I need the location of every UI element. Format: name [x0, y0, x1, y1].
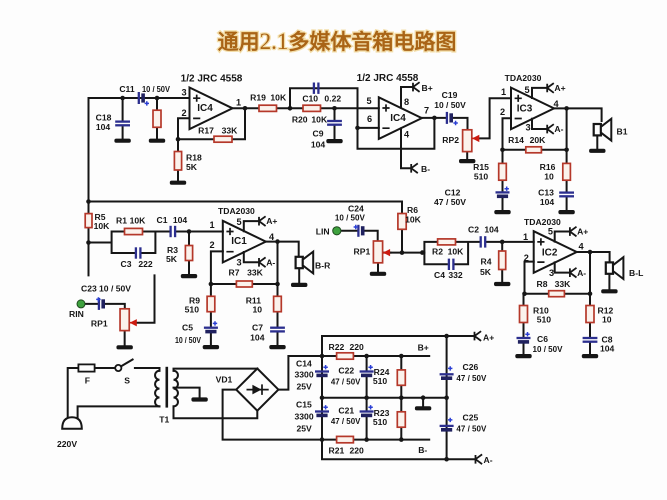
- svg-text:IC4: IC4: [390, 113, 406, 124]
- svg-text:C18: C18: [96, 113, 112, 123]
- svg-text:10 / 50V: 10 / 50V: [533, 344, 563, 354]
- svg-text:C14: C14: [296, 358, 312, 368]
- svg-text:LIN: LIN: [316, 226, 330, 236]
- svg-text:A-: A-: [484, 455, 493, 465]
- svg-text:25V: 25V: [297, 424, 313, 434]
- svg-text:C9: C9: [313, 129, 324, 139]
- svg-text:S: S: [124, 375, 130, 385]
- svg-text:104: 104: [600, 344, 615, 354]
- svg-text:222: 222: [138, 259, 153, 269]
- svg-text:R6: R6: [407, 205, 418, 215]
- svg-text:1/2 JRC 4558: 1/2 JRC 4558: [181, 74, 243, 85]
- svg-text:C5: C5: [182, 323, 193, 333]
- svg-text:B-L: B-L: [629, 268, 643, 278]
- svg-text:5K: 5K: [480, 267, 492, 277]
- svg-text:C4: C4: [434, 270, 445, 280]
- svg-text:R22: R22: [329, 342, 345, 352]
- svg-text:104: 104: [173, 215, 188, 225]
- svg-text:10K: 10K: [270, 92, 287, 102]
- svg-text:B-R: B-R: [315, 260, 331, 270]
- svg-text:2: 2: [524, 253, 529, 263]
- svg-text:C2: C2: [468, 224, 479, 234]
- svg-text:47 / 50V: 47 / 50V: [331, 376, 361, 386]
- svg-text:IC4: IC4: [197, 103, 213, 114]
- svg-text:2: 2: [500, 107, 505, 117]
- svg-text:25V: 25V: [297, 381, 313, 391]
- svg-text:1: 1: [209, 220, 214, 230]
- svg-text:F: F: [85, 376, 90, 386]
- svg-text:C23: C23: [81, 283, 97, 293]
- svg-text:C6: C6: [537, 334, 548, 344]
- svg-text:RIN: RIN: [69, 309, 84, 319]
- svg-text:C19: C19: [442, 90, 458, 100]
- svg-text:104: 104: [250, 333, 265, 343]
- svg-text:3: 3: [525, 123, 530, 133]
- svg-text:104: 104: [484, 224, 499, 234]
- svg-text:10K: 10K: [130, 216, 147, 226]
- svg-text:TDA2030: TDA2030: [505, 73, 542, 83]
- svg-text:4: 4: [553, 99, 559, 109]
- svg-text:47 / 50V: 47 / 50V: [456, 373, 486, 383]
- svg-text:5: 5: [236, 217, 241, 227]
- svg-text:C13: C13: [538, 188, 554, 198]
- svg-text:10K: 10K: [405, 214, 422, 224]
- svg-text:RP2: RP2: [442, 135, 459, 145]
- svg-text:IC3: IC3: [517, 104, 533, 115]
- svg-text:104: 104: [96, 122, 111, 132]
- svg-text:10: 10: [544, 171, 554, 181]
- svg-text:0.22: 0.22: [324, 93, 341, 103]
- svg-text:A+: A+: [483, 332, 494, 342]
- svg-text:104: 104: [540, 197, 555, 207]
- svg-text:B+: B+: [418, 342, 429, 352]
- svg-text:1: 1: [501, 87, 506, 97]
- svg-text:C21: C21: [338, 406, 354, 416]
- svg-text:3: 3: [549, 268, 554, 278]
- svg-text:3300: 3300: [295, 412, 314, 422]
- svg-text:510: 510: [373, 376, 388, 386]
- svg-text:510: 510: [185, 304, 200, 314]
- svg-text:10 / 50V: 10 / 50V: [335, 212, 365, 222]
- svg-text:T1: T1: [159, 415, 169, 425]
- svg-text:33K: 33K: [555, 279, 572, 289]
- svg-text:10K: 10K: [311, 114, 328, 124]
- svg-text:C1: C1: [157, 215, 168, 225]
- svg-text:10 / 50V: 10 / 50V: [142, 84, 170, 94]
- svg-text:5: 5: [366, 96, 371, 106]
- svg-text:VD1: VD1: [216, 375, 233, 385]
- svg-text:4: 4: [269, 232, 275, 242]
- svg-text:8: 8: [404, 97, 409, 107]
- svg-text:47 / 50V: 47 / 50V: [434, 197, 466, 207]
- svg-text:B-: B-: [421, 164, 430, 174]
- svg-text:5K: 5K: [186, 162, 198, 172]
- svg-text:7: 7: [424, 106, 429, 116]
- svg-text:IC1: IC1: [231, 236, 247, 247]
- svg-text:R2: R2: [432, 247, 443, 257]
- svg-text:C3: C3: [121, 259, 132, 269]
- svg-text:510: 510: [537, 315, 552, 325]
- svg-text:33K: 33K: [222, 126, 239, 136]
- svg-text:220V: 220V: [57, 439, 77, 449]
- svg-text:4: 4: [578, 242, 584, 252]
- svg-text:C12: C12: [445, 188, 461, 198]
- svg-text:通用2.1多媒体音箱电路图: 通用2.1多媒体音箱电路图: [218, 29, 457, 54]
- svg-text:10 / 50V: 10 / 50V: [175, 335, 201, 345]
- svg-text:R14: R14: [508, 135, 524, 145]
- svg-text:C26: C26: [463, 362, 479, 372]
- svg-text:R19: R19: [250, 92, 266, 102]
- svg-text:2: 2: [181, 108, 186, 118]
- svg-text:10: 10: [602, 315, 612, 325]
- svg-text:C15: C15: [296, 400, 312, 410]
- svg-text:C7: C7: [252, 323, 263, 333]
- svg-text:RP1: RP1: [91, 319, 108, 329]
- svg-text:220: 220: [350, 342, 365, 352]
- svg-text:220: 220: [350, 445, 365, 455]
- svg-text:20K: 20K: [530, 135, 547, 145]
- svg-text:3300: 3300: [295, 369, 314, 379]
- svg-text:5: 5: [524, 85, 529, 95]
- svg-text:1: 1: [236, 98, 241, 108]
- svg-text:B+: B+: [422, 83, 433, 93]
- svg-text:B1: B1: [617, 127, 628, 137]
- svg-text:5K: 5K: [166, 254, 178, 264]
- svg-text:104: 104: [311, 139, 326, 149]
- svg-text:10 / 50V: 10 / 50V: [99, 283, 131, 293]
- svg-text:33K: 33K: [247, 268, 264, 278]
- svg-text:1: 1: [523, 232, 528, 242]
- svg-text:TDA2030: TDA2030: [218, 206, 255, 216]
- svg-text:R1: R1: [116, 216, 127, 226]
- svg-text:3: 3: [181, 88, 186, 98]
- svg-text:C25: C25: [463, 412, 479, 422]
- svg-text:3: 3: [236, 258, 241, 268]
- svg-text:TDA2030: TDA2030: [524, 217, 561, 227]
- svg-text:10 / 50V: 10 / 50V: [434, 100, 466, 110]
- svg-text:R4: R4: [481, 256, 492, 266]
- svg-text:510: 510: [373, 417, 388, 427]
- svg-text:RP1: RP1: [354, 247, 371, 257]
- svg-text:C22: C22: [338, 366, 354, 376]
- svg-text:5: 5: [548, 227, 553, 237]
- svg-text:R21: R21: [329, 445, 345, 455]
- svg-text:332: 332: [448, 270, 463, 280]
- svg-text:10: 10: [252, 304, 262, 314]
- svg-text:2: 2: [209, 240, 214, 250]
- svg-text:R8: R8: [537, 279, 548, 289]
- svg-text:1/2 JRC 4558: 1/2 JRC 4558: [357, 73, 419, 84]
- svg-text:R18: R18: [186, 153, 202, 163]
- svg-text:IC2: IC2: [542, 248, 558, 259]
- svg-text:R7: R7: [229, 268, 240, 278]
- svg-text:10K: 10K: [448, 247, 465, 257]
- svg-text:6: 6: [367, 114, 372, 124]
- svg-text:C10: C10: [302, 93, 318, 103]
- svg-text:B-: B-: [418, 445, 427, 455]
- svg-text:R17: R17: [198, 126, 214, 136]
- svg-text:510: 510: [474, 171, 489, 181]
- svg-text:C11: C11: [119, 84, 135, 94]
- svg-text:47 / 50V: 47 / 50V: [456, 423, 486, 433]
- svg-text:4: 4: [404, 130, 410, 140]
- svg-text:10K: 10K: [94, 221, 111, 231]
- svg-text:R20: R20: [292, 114, 308, 124]
- svg-text:47 / 50V: 47 / 50V: [331, 416, 361, 426]
